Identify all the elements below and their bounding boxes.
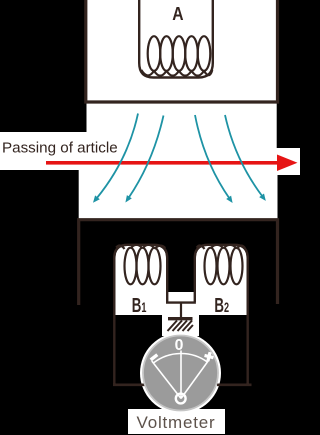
wire joining B1-B2 inner ends bbox=[166, 301, 196, 303]
white backdrop: lower middle band bbox=[79, 170, 278, 219]
voltmeter body bbox=[143, 336, 218, 411]
flux line arrow 2 (left inner) bbox=[129, 116, 164, 199]
ground symbol (hatched block) bbox=[168, 319, 193, 331]
coil B1 (3 loops, scallops on top) bbox=[116, 245, 165, 285]
white backdrop: coil B2 window bbox=[196, 246, 247, 315]
coil B1 window outline bbox=[114, 245, 167, 384]
coil B2 window outline bbox=[195, 245, 248, 384]
svg-text:0: 0 bbox=[175, 337, 184, 354]
coil B2 (3 loops, scallops on top) bbox=[197, 245, 245, 285]
wire from B1 to voltmeter bbox=[114, 383, 146, 385]
svg-text:Passing of article: Passing of article bbox=[2, 139, 118, 156]
white backdrop: voltmeter caption blob bbox=[128, 409, 225, 434]
white backdrop: red arrowhead patch bbox=[276, 148, 300, 175]
flux line arrow 4 (right outer) bbox=[225, 115, 263, 197]
core frame of detector head A (outer box, open top) bbox=[86, 0, 278, 102]
white backdrop: center connector blob bbox=[166, 292, 196, 315]
white backdrop: ground hatch blob bbox=[162, 310, 199, 336]
white backdrop: passing-of-article text band bbox=[0, 132, 124, 170]
flux line arrow 1 (left outer) bbox=[97, 114, 139, 199]
red arrow (passing of article) bbox=[46, 155, 298, 172]
flux line arrow 3 (right inner) bbox=[195, 115, 230, 199]
wire from B2 to voltmeter bbox=[217, 383, 252, 385]
voltmeter scale plus bbox=[203, 351, 214, 362]
voltmeter scale minus bbox=[150, 353, 159, 361]
voltmeter dial fan bbox=[152, 351, 209, 399]
wire center tap to ground bbox=[180, 303, 182, 318]
svg-text:Voltmeter: Voltmeter bbox=[137, 413, 216, 432]
coil A (5 loops with bottom scallops) bbox=[141, 36, 212, 75]
voltmeter needle pivot bbox=[176, 394, 186, 404]
lower unit frame (open bottom box) bbox=[79, 220, 278, 305]
core window U around coil A (rounded bottom) bbox=[139, 0, 213, 78]
white backdrop: coil B1 window bbox=[116, 246, 167, 315]
svg-text:A: A bbox=[172, 4, 183, 24]
white backdrop: top core column bbox=[87, 0, 277, 170]
white backdrop: voltmeter halo ring bbox=[140, 333, 221, 414]
